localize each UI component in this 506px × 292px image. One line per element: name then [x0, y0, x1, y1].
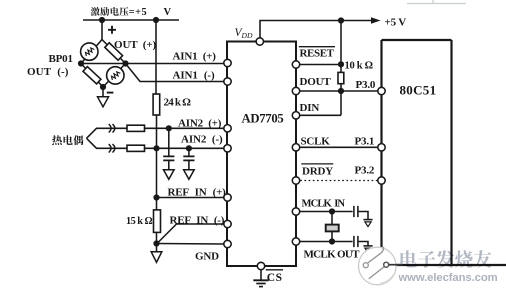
svg-text:GND: GND — [195, 251, 219, 263]
svg-text:P3.1: P3.1 — [355, 135, 375, 147]
svg-text:P3.0: P3.0 — [356, 79, 376, 91]
svg-text:DIN: DIN — [300, 102, 320, 114]
svg-text:VDD: VDD — [235, 27, 253, 40]
svg-text:www.elecfans.com: www.elecfans.com — [398, 272, 498, 284]
svg-text:MCLK IN: MCLK IN — [302, 199, 346, 210]
svg-text:AIN1 (+): AIN1 (+) — [173, 51, 217, 63]
svg-text:CS: CS — [267, 272, 283, 284]
svg-text:OUT (-): OUT (-) — [27, 66, 69, 78]
svg-text:10 k Ω: 10 k Ω — [345, 61, 373, 72]
svg-text:AIN1 (-): AIN1 (-) — [173, 70, 215, 82]
svg-text:+5 V: +5 V — [385, 17, 407, 29]
svg-text:BP01: BP01 — [49, 53, 73, 65]
svg-text:AIN2 (-): AIN2 (-) — [181, 134, 223, 146]
svg-text:15 k Ω: 15 k Ω — [126, 216, 152, 227]
svg-text:DOUT: DOUT — [300, 76, 332, 88]
svg-text:24 k Ω: 24 k Ω — [164, 97, 192, 109]
svg-text:AIN2 (+): AIN2 (+) — [178, 117, 222, 129]
svg-text:RESET: RESET — [300, 47, 335, 59]
svg-text:AD7705: AD7705 — [242, 112, 284, 126]
svg-text:V: V — [164, 7, 172, 18]
svg-text:=+5: =+5 — [129, 7, 147, 18]
svg-text:REF IN (+): REF IN (+) — [168, 187, 227, 199]
svg-text:P3.2: P3.2 — [355, 164, 375, 176]
svg-text:80C51: 80C51 — [400, 83, 437, 98]
svg-text:MCLK OUT: MCLK OUT — [304, 249, 361, 261]
svg-text:DRDY: DRDY — [302, 166, 333, 178]
svg-text:SCLK: SCLK — [301, 135, 331, 147]
svg-text:OUT (+): OUT (+) — [114, 39, 157, 51]
svg-text:REF IN (-): REF IN (-) — [170, 214, 225, 226]
